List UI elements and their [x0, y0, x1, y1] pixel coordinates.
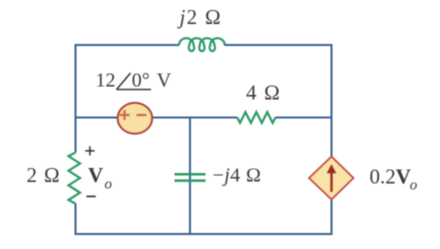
wire: top left horizontal segment — [75, 44, 180, 46]
current source arrow shaft — [330, 172, 332, 192]
angle symbol bar — [117, 89, 152, 91]
voltage source minus sign — [137, 114, 147, 116]
svg-text:2 Ω: 2 Ω — [27, 163, 61, 187]
resistor R1 2 ohm vertical zigzag — [69, 153, 81, 204]
svg-text:−j4 Ω: −j4 Ω — [213, 165, 262, 187]
svg-text:o: o — [105, 176, 113, 192]
wire: middle horizontal right segment — [275, 117, 331, 119]
minus polarity label for Vo — [87, 195, 96, 197]
svg-text:o: o — [410, 178, 418, 194]
voltage source plus sign — [120, 110, 130, 120]
wire: top right horizontal segment — [224, 44, 331, 46]
svg-text:V: V — [88, 163, 103, 187]
angle symbol diagonal — [117, 73, 131, 90]
wire: middle vertical branch (capacitor branch) — [189, 118, 191, 236]
current source arrow head — [327, 164, 337, 173]
svg-text:0.2V: 0.2V — [370, 164, 411, 188]
plus polarity label for Vo — [85, 146, 94, 155]
svg-text:12: 12 — [96, 70, 116, 92]
wire: bottom horizontal — [75, 233, 333, 235]
svg-text:0°: 0° — [132, 70, 150, 92]
wire: left vertical lower segment — [75, 204, 77, 235]
capacitor C1 bottom plate — [175, 179, 206, 182]
dependent current source I1 diamond — [309, 157, 354, 200]
voltage source V1 circle — [118, 103, 153, 134]
svg-text:j2 Ω: j2 Ω — [177, 5, 222, 29]
resistor R2 4 ohm horizontal zigzag — [237, 112, 275, 123]
svg-text:4 Ω: 4 Ω — [246, 81, 281, 105]
wire: right vertical — [331, 44, 333, 235]
svg-text:V: V — [157, 70, 172, 92]
capacitor C1 top plate — [175, 173, 206, 176]
wire: left vertical upper segment — [75, 44, 77, 153]
wire: middle horizontal left segment — [76, 117, 238, 119]
inductor L1 j2 ohm coil — [179, 38, 225, 51]
